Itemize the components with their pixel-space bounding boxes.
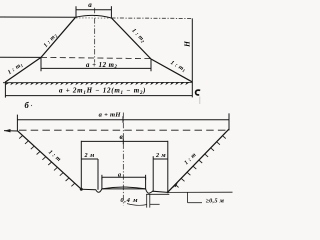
- floor line right of toe: [168, 191, 233, 193]
- dimension a extension line left: [75, 6, 77, 17]
- left upper slope 1:m2: [41, 17, 76, 57]
- dimension B extension/left side of left berm: [80, 141, 82, 189]
- left slope hatch ticks: [19, 136, 75, 187]
- centerline lower diagram: [122, 113, 124, 206]
- bottom dimension extension line right / H dimension line: [191, 18, 193, 97]
- svg-text:а + 12 m2: а + 12 m2: [86, 62, 117, 70]
- ground line: [3, 81, 193, 83]
- arrowhead on right slope: [173, 182, 178, 187]
- drainage prism left side: [101, 177, 103, 189]
- top dimension line a+mH: [17, 119, 229, 121]
- tick left end of right berm dim: [152, 156, 154, 159]
- paper background: [0, 0, 233, 212]
- crest level reference line right: [112, 17, 193, 19]
- right upper slope 1:m2: [112, 18, 152, 59]
- right cut slope 1:m: [168, 129, 230, 193]
- svg-text:2 м: 2 м: [84, 152, 95, 159]
- left berm right side: [97, 159, 99, 190]
- svg-text:а + 2m1H − 12(m1 − m2): а + 2m1H − 12(m1 − m2): [59, 87, 146, 96]
- 0.5m leader horizontal: [188, 202, 202, 204]
- center tick on top dimension: [122, 116, 124, 123]
- left cut slope 1:m: [18, 131, 82, 189]
- excavation floor with ditches and drainage prism: [81, 189, 167, 193]
- tick right end prism dim: [145, 175, 147, 180]
- berm level line solid left: [0, 56, 41, 58]
- 0.4m leader: [127, 204, 147, 206]
- ground arrow line left: [4, 130, 18, 132]
- crest level reference line left: [0, 16, 76, 18]
- embankment crest arc: [76, 15, 112, 18]
- extension line left of a+12m2 dimension: [40, 57, 42, 71]
- svg-text:≥0,5 м: ≥0,5 м: [205, 198, 224, 205]
- top dimension extension right: [228, 113, 230, 130]
- 0.4m dim lower tick: [150, 203, 160, 205]
- dimension line a+12m2: [41, 67, 151, 69]
- bottom dimension line: [5, 95, 192, 97]
- svg-text:2 м: 2 м: [155, 152, 166, 159]
- tick left end prism dim: [101, 175, 103, 180]
- 0.5m leader vertical: [187, 192, 189, 202]
- dimension a line: [76, 9, 111, 11]
- ground continuation arrowhead: [4, 129, 11, 132]
- faint artifact line: [199, 97, 201, 105]
- stray mark c: [196, 90, 201, 95]
- berm level line dashed: [41, 57, 151, 58]
- svg-text:H: H: [183, 41, 192, 48]
- top dimension extension left: [16, 115, 18, 132]
- right side of right berm / B extension: [167, 141, 169, 193]
- 0.4m dim vertical pair: [146, 194, 148, 207]
- dimension a line (prism): [102, 176, 146, 178]
- centerline upper diagram: [94, 8, 96, 63]
- left slope toe dot: [80, 188, 83, 191]
- right slope toe dot: [167, 191, 169, 193]
- bottom dimension extension line left: [4, 82, 6, 98]
- center tick on B dimension: [122, 139, 124, 145]
- right berm left side: [152, 159, 154, 191]
- dimension B line: [81, 140, 168, 142]
- svg-text:а + mH: а + mH: [99, 112, 122, 119]
- dimension a extension line right: [110, 6, 112, 18]
- svg-text:а: а: [88, 1, 92, 9]
- drainage prism right side: [145, 177, 147, 189]
- right berm 2m dimension line (top of rect): [153, 158, 168, 160]
- right slope hatch ticks: [175, 136, 226, 188]
- left lower slope 1:m1: [5, 57, 41, 82]
- drainage prism top arc: [102, 187, 146, 189]
- svg-text:0,4 м: 0,4 м: [120, 197, 138, 204]
- extension line right of a+12m2 dimension: [150, 59, 152, 71]
- ground surface dashed line: [19, 129, 228, 131]
- 0.4m dim floor reference tick: [146, 193, 169, 195]
- crest base dotted line: [76, 17, 111, 19]
- right lower slope 1:m1: [151, 59, 192, 82]
- left berm 2m dimension line (top of rect): [81, 158, 98, 160]
- ground hatch teeth: [5, 82, 189, 85]
